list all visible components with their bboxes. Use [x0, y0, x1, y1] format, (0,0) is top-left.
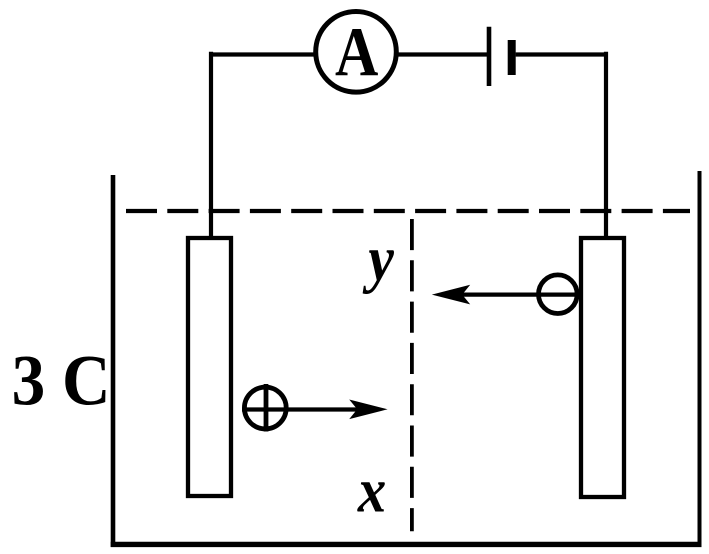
electrode right — [581, 238, 624, 497]
node y label — [362, 223, 395, 295]
node x label — [357, 456, 386, 525]
wire right vertical drop to right electrode — [604, 52, 608, 236]
electrode left — [188, 238, 231, 496]
positive ion symbol (circle plus) — [244, 384, 286, 432]
wire left vertical drop to left electrode — [209, 52, 213, 238]
membrane vertical dashed line — [410, 219, 414, 531]
wire ammeter to battery — [396, 52, 487, 56]
container left wall — [111, 175, 116, 547]
wire top-left horizontal — [209, 52, 316, 56]
container right wall — [698, 171, 702, 547]
liquid level dashed line — [126, 209, 690, 213]
wire battery to right corner — [516, 52, 608, 56]
arrow negative ion moving left — [432, 285, 580, 305]
ammeter A — [316, 12, 397, 93]
negative ion symbol (circle minus) — [539, 275, 578, 314]
battery B1 short plate — [508, 40, 516, 75]
svg-text:3 C: 3 C — [12, 341, 111, 421]
battery B1 long plate — [487, 27, 492, 86]
svg-text:y: y — [362, 223, 395, 295]
container bottom — [111, 542, 702, 547]
svg-text:x: x — [357, 456, 386, 525]
arrow positive ion moving right — [242, 400, 388, 420]
svg-text:A: A — [335, 14, 378, 91]
label 3 C — [12, 341, 111, 421]
